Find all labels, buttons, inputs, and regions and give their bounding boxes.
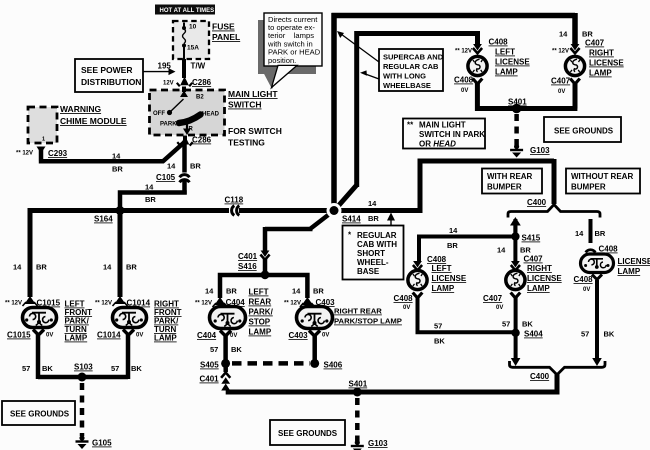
svg-text:C407: C407 (524, 255, 544, 264)
svg-text:BR: BR (447, 241, 458, 250)
svg-text:S401: S401 (508, 98, 527, 107)
svg-text:T/W: T/W (191, 61, 206, 70)
svg-text:0V: 0V (46, 333, 53, 339)
svg-text:BR: BR (313, 287, 324, 296)
svg-text:C408: C408 (599, 245, 619, 254)
svg-text:0V: 0V (403, 305, 410, 311)
svg-text:C403: C403 (316, 298, 336, 307)
svg-text:C408: C408 (454, 76, 474, 85)
svg-text:57: 57 (434, 322, 442, 331)
svg-text:57: 57 (210, 345, 218, 354)
svg-text:SUPERCAB AND: SUPERCAB AND (383, 53, 444, 62)
svg-text:C408: C408 (427, 255, 447, 264)
svg-text:C105: C105 (156, 173, 176, 182)
svg-text:57: 57 (22, 364, 30, 373)
svg-text:BK: BK (522, 320, 533, 329)
svg-text:BR: BR (368, 214, 379, 223)
svg-text:WARNING: WARNING (60, 104, 101, 114)
svg-text:position.: position. (268, 56, 296, 65)
svg-text:14: 14 (497, 246, 506, 255)
svg-text:B2: B2 (196, 95, 204, 101)
svg-text:LAMP: LAMP (527, 284, 550, 293)
svg-text:BR: BR (112, 165, 123, 174)
svg-text:14: 14 (575, 229, 584, 238)
svg-text:C1015: C1015 (37, 299, 61, 308)
svg-text:MAIN LIGHT: MAIN LIGHT (228, 89, 278, 99)
svg-text:BK: BK (231, 345, 242, 354)
svg-text:LEFT: LEFT (495, 48, 515, 57)
svg-text:LICENSE: LICENSE (495, 58, 530, 67)
svg-text:G105: G105 (92, 439, 112, 448)
svg-text:BASE: BASE (357, 267, 380, 276)
svg-text:BR: BR (126, 263, 137, 272)
svg-text:C403: C403 (289, 331, 309, 340)
svg-text:0V: 0V (583, 287, 590, 293)
svg-text:BR: BR (520, 246, 531, 255)
svg-text:RIGHT REAR: RIGHT REAR (334, 307, 382, 316)
svg-text:** 12V: ** 12V (16, 151, 33, 157)
svg-text:TESTING: TESTING (228, 138, 265, 148)
svg-text:CHIME MODULE: CHIME MODULE (60, 116, 127, 126)
svg-text:LICENSE: LICENSE (618, 257, 650, 266)
svg-text:PANEL: PANEL (212, 32, 240, 42)
svg-text:S405: S405 (200, 361, 219, 370)
svg-text:LAMP: LAMP (432, 284, 455, 293)
svg-text:0V: 0V (496, 305, 503, 311)
svg-text:C286: C286 (192, 136, 212, 145)
svg-text:PARK: PARK (160, 122, 177, 128)
svg-text:BK: BK (434, 337, 445, 346)
svg-text:PARK/STOP LAMP: PARK/STOP LAMP (334, 317, 402, 326)
svg-text:C407: C407 (551, 77, 571, 86)
svg-text:LAMP: LAMP (618, 267, 641, 276)
svg-text:G103: G103 (368, 439, 388, 448)
svg-text:S416: S416 (238, 262, 257, 271)
svg-text:0V: 0V (230, 333, 237, 339)
svg-text:** 12V: ** 12V (5, 301, 22, 307)
svg-text:15A: 15A (187, 44, 199, 51)
svg-text:CAB WITH: CAB WITH (357, 240, 397, 249)
svg-text:SEE GROUNDS: SEE GROUNDS (554, 127, 614, 136)
svg-text:S404: S404 (524, 330, 543, 339)
svg-text:** 12V: ** 12V (195, 301, 212, 307)
svg-text:57: 57 (581, 330, 589, 339)
svg-text:OFF: OFF (153, 111, 165, 117)
svg-text:** 12V: ** 12V (455, 49, 472, 55)
svg-text:MAIN LIGHT: MAIN LIGHT (419, 121, 466, 130)
svg-text:C404: C404 (197, 331, 217, 340)
svg-text:G103: G103 (530, 146, 550, 155)
svg-text:RIGHT: RIGHT (527, 264, 552, 273)
svg-text:C408: C408 (574, 275, 594, 284)
svg-text:LAMP: LAMP (589, 69, 612, 78)
svg-text:14: 14 (559, 30, 568, 39)
svg-text:14: 14 (13, 263, 22, 272)
svg-text:HOT AT ALL TIMES: HOT AT ALL TIMES (160, 8, 215, 14)
svg-text:BUMPER: BUMPER (571, 183, 606, 192)
svg-text:LEFT: LEFT (432, 264, 452, 273)
svg-text:C401: C401 (238, 252, 258, 261)
svg-text:14: 14 (205, 287, 214, 296)
svg-text:C407: C407 (585, 39, 605, 48)
svg-text:SHORT: SHORT (357, 249, 385, 258)
svg-text:** 12V: ** 12V (284, 301, 301, 307)
svg-text:0V: 0V (558, 89, 565, 95)
svg-text:195: 195 (158, 61, 172, 70)
svg-text:S103: S103 (74, 363, 93, 372)
svg-text:LAMP: LAMP (495, 68, 518, 77)
svg-text:FOR SWITCH: FOR SWITCH (228, 126, 282, 136)
svg-text:C404: C404 (226, 298, 246, 307)
svg-text:DISTRIBUTION: DISTRIBUTION (81, 77, 141, 87)
svg-text:1: 1 (42, 137, 45, 143)
svg-text:WITH REAR: WITH REAR (487, 172, 533, 181)
svg-text:S401: S401 (349, 380, 368, 389)
svg-text:14: 14 (292, 287, 301, 296)
svg-text:BR: BR (36, 263, 47, 272)
svg-text:SEE POWER: SEE POWER (81, 65, 132, 75)
svg-text:12V: 12V (163, 81, 174, 87)
svg-text:14: 14 (368, 199, 377, 208)
svg-text:WHEELBASE: WHEELBASE (383, 81, 431, 90)
svg-text:REAR: REAR (249, 298, 272, 307)
svg-text:C1014: C1014 (97, 331, 121, 340)
svg-text:REGULAR: REGULAR (357, 231, 397, 240)
svg-text:0V: 0V (461, 88, 468, 94)
svg-text:14: 14 (112, 152, 121, 161)
svg-text:RIGHT: RIGHT (589, 49, 614, 58)
svg-text:C118: C118 (225, 196, 244, 205)
svg-text:SWITCH: SWITCH (228, 100, 262, 110)
svg-text:LICENSE: LICENSE (527, 274, 562, 283)
svg-text:HEAD: HEAD (202, 112, 220, 118)
svg-text:S164: S164 (94, 215, 113, 224)
svg-text:STOP: STOP (249, 318, 271, 327)
svg-text:SWITCH IN PARK: SWITCH IN PARK (419, 130, 485, 139)
svg-text:C1015: C1015 (7, 331, 31, 340)
svg-text:0V: 0V (136, 333, 143, 339)
svg-text:C286: C286 (192, 78, 212, 87)
svg-text:C401: C401 (200, 375, 220, 384)
svg-text:LEFT: LEFT (249, 288, 269, 297)
svg-text:C293: C293 (48, 149, 68, 158)
svg-text:REGULAR CAB: REGULAR CAB (383, 62, 439, 71)
svg-text:LAMP: LAMP (154, 334, 177, 343)
svg-text:BK: BK (604, 330, 615, 339)
svg-text:57: 57 (111, 364, 119, 373)
svg-text:WHEEL-: WHEEL- (357, 258, 389, 267)
svg-text:PARK/: PARK/ (249, 308, 274, 317)
svg-text:LAMP: LAMP (65, 334, 88, 343)
svg-text:14: 14 (449, 226, 458, 235)
svg-text:C408: C408 (394, 294, 414, 303)
svg-text:BR: BR (145, 195, 156, 204)
svg-text:14: 14 (145, 183, 154, 192)
svg-text:C400: C400 (530, 372, 550, 381)
svg-text:C408: C408 (489, 38, 509, 47)
svg-text:OR HEAD: OR HEAD (419, 140, 456, 149)
svg-text:LICENSE: LICENSE (432, 274, 467, 283)
svg-text:S414: S414 (342, 215, 361, 224)
svg-text:C407: C407 (483, 294, 503, 303)
svg-text:0V: 0V (322, 333, 329, 339)
svg-text:**: ** (407, 121, 414, 130)
svg-text:57: 57 (502, 320, 510, 329)
svg-text:14: 14 (103, 263, 112, 272)
svg-text:WITHOUT REAR: WITHOUT REAR (571, 172, 633, 181)
svg-text:BK: BK (131, 364, 142, 373)
svg-text:BK: BK (42, 364, 53, 373)
svg-text:C400: C400 (527, 198, 547, 207)
svg-text:** 12V: ** 12V (552, 49, 569, 55)
svg-text:BR: BR (582, 30, 593, 39)
svg-text:R: R (189, 127, 194, 133)
svg-text:BR: BR (595, 229, 606, 238)
svg-text:S406: S406 (324, 361, 343, 370)
svg-text:FUSE: FUSE (212, 22, 235, 32)
svg-text:S415: S415 (522, 234, 541, 243)
svg-text:LAMP: LAMP (249, 328, 272, 337)
svg-text:BR: BR (226, 287, 237, 296)
svg-text:14: 14 (167, 162, 176, 171)
svg-text:10: 10 (189, 24, 197, 31)
svg-text:LICENSE: LICENSE (589, 59, 624, 68)
svg-text:BR: BR (190, 162, 201, 171)
svg-text:SEE GROUNDS: SEE GROUNDS (278, 429, 338, 438)
svg-text:WITH LONG: WITH LONG (383, 72, 426, 81)
svg-text:C1014: C1014 (127, 299, 151, 308)
svg-text:BUMPER: BUMPER (487, 183, 522, 192)
svg-text:SEE GROUNDS: SEE GROUNDS (10, 410, 70, 419)
svg-text:** 12V: ** 12V (95, 301, 112, 307)
